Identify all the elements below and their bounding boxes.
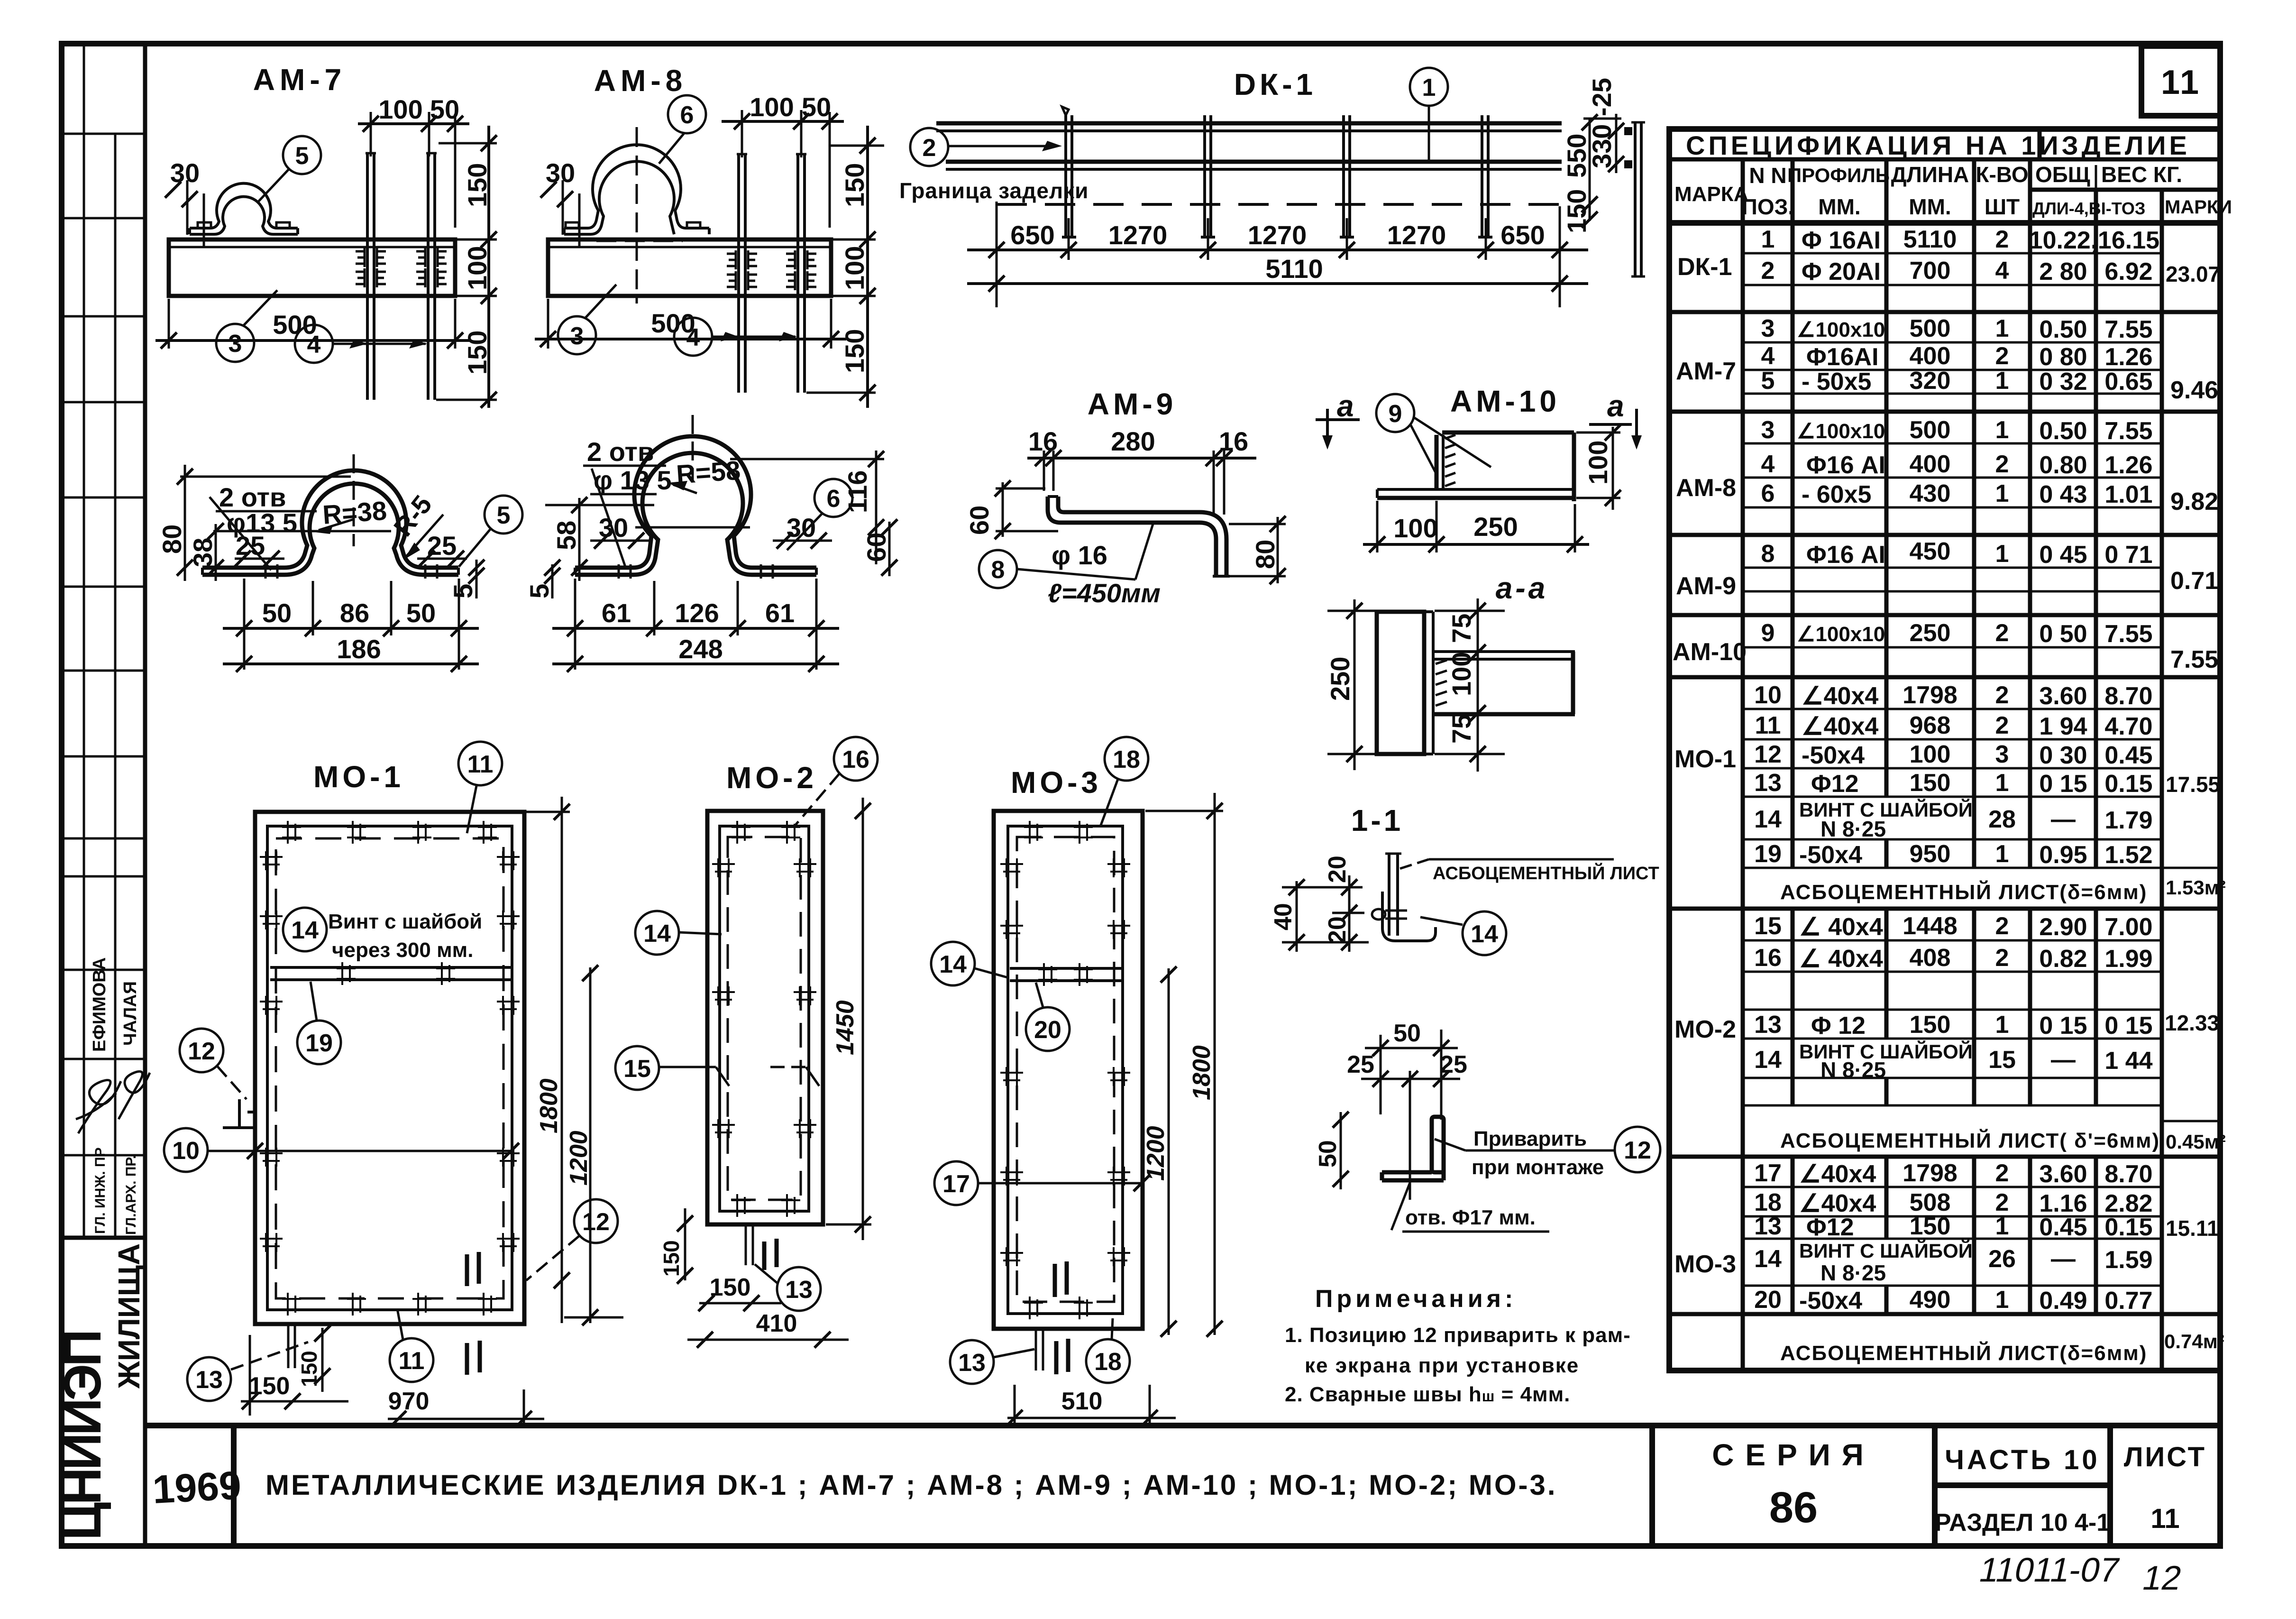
svg-text:АСБОЦЕМЕНТНЫЙ ЛИСТ(δ=6мм): АСБОЦЕМЕНТНЫЙ ЛИСТ(δ=6мм) (1780, 1341, 2147, 1365)
svg-text:13: 13 (195, 1366, 223, 1394)
anchor rod pos 4 (right) (427, 153, 430, 400)
svg-text:100: 100 (462, 246, 492, 290)
svg-text:5: 5 (295, 142, 309, 170)
svg-text:1798: 1798 (1903, 1159, 1958, 1187)
svg-text:14: 14 (643, 920, 671, 947)
svg-text:0 50: 0 50 (2039, 620, 2087, 648)
svg-text:через 300 мм.: через 300 мм. (332, 938, 473, 962)
svg-text:19: 19 (305, 1030, 333, 1057)
svg-text:ВЕС КГ.: ВЕС КГ. (2101, 162, 2182, 187)
horizontal bar (1435, 650, 1575, 653)
svg-text:1: 1 (1995, 480, 2009, 507)
svg-text:14: 14 (1754, 1046, 1782, 1074)
callout circle 4 with arrows to rods (674, 318, 712, 356)
page number box top right (2141, 46, 2220, 116)
svg-text:0.15: 0.15 (2104, 770, 2152, 798)
svg-text:ГЛ.АРХ. ПР.: ГЛ.АРХ. ПР. (123, 1155, 139, 1235)
omega profile pos 6 (575, 436, 816, 568)
inner frame (720, 826, 809, 1211)
svg-text:Φ12: Φ12 (1806, 1214, 1854, 1241)
dim 1450 right (862, 798, 864, 1240)
svg-text:3: 3 (229, 330, 242, 358)
svg-text:330: 330 (1587, 124, 1617, 168)
svg-text:50: 50 (1314, 1140, 1342, 1168)
svg-text:1-1: 1-1 (1351, 803, 1404, 837)
svg-text:10: 10 (172, 1137, 200, 1165)
svg-text:5: 5 (1761, 367, 1775, 395)
svg-text:2: 2 (1761, 257, 1775, 285)
post pos 2 c (1342, 115, 1345, 237)
svg-text:DК-1: DК-1 (1234, 67, 1317, 101)
svg-text:0 15: 0 15 (2039, 770, 2087, 798)
dashed inner (1017, 837, 1114, 1302)
sheet edge vertical (1388, 854, 1390, 936)
svg-text:0 30: 0 30 (2039, 742, 2087, 769)
svg-text:1 44: 1 44 (2104, 1047, 2152, 1075)
svg-text:1: 1 (1995, 1213, 2009, 1240)
svg-text:80: 80 (157, 524, 187, 554)
svg-text:80: 80 (1250, 540, 1280, 569)
svg-text:Приварить: Приварить (1473, 1127, 1587, 1150)
svg-text:14: 14 (291, 917, 319, 944)
rail pos 1 (lower, two lines) (946, 160, 1562, 164)
clamp pos 6 on plate (564, 145, 709, 228)
svg-text:20: 20 (1324, 916, 1351, 944)
svg-text:0 15: 0 15 (2039, 1012, 2087, 1039)
svg-text:5: 5 (448, 584, 478, 598)
svg-text:150: 150 (659, 1240, 684, 1277)
svg-text:20: 20 (1034, 1016, 1061, 1044)
callout circle 2 with leader (910, 128, 948, 166)
callout circle 19 (297, 1021, 341, 1064)
svg-text:3.60: 3.60 (2039, 1160, 2087, 1188)
svg-text:61: 61 (765, 598, 795, 628)
svg-text:3: 3 (1761, 315, 1775, 342)
section marks 11 (467, 1252, 479, 1286)
dim 410 (687, 1339, 849, 1341)
base angle horizontal (1377, 488, 1574, 491)
svg-text:116: 116 (842, 470, 872, 513)
svg-text:490: 490 (1910, 1286, 1951, 1314)
svg-text:1: 1 (1761, 226, 1775, 253)
svg-text:a-a: a-a (1496, 571, 1548, 605)
svg-text:4: 4 (1995, 257, 2009, 285)
callout circle 15 (615, 1046, 659, 1090)
svg-text:12: 12 (188, 1038, 215, 1065)
anchor rod pos 4 (right) (796, 154, 799, 393)
svg-text:a: a (1337, 389, 1354, 423)
dashed angle inner (276, 838, 503, 1298)
dim 510 (1007, 1417, 1176, 1419)
AM-8 rows (1743, 442, 2162, 445)
AM-10 rows (1743, 646, 2162, 649)
svg-text:1448: 1448 (1903, 912, 1958, 940)
svg-text:АСБОЦЕМЕНТНЫЙ ЛИСТ(δ=6мм): АСБОЦЕМЕНТНЫЙ ЛИСТ(δ=6мм) (1780, 880, 2147, 904)
svg-text:4: 4 (307, 331, 321, 359)
svg-text:1: 1 (1995, 769, 2009, 797)
svg-text:2: 2 (1995, 342, 2009, 370)
svg-text:a: a (1607, 389, 1624, 423)
screw marks (732, 821, 750, 844)
svg-text:650: 650 (1010, 220, 1054, 250)
inner frame (1008, 826, 1123, 1314)
callout circle 3 (558, 316, 596, 354)
svg-text:2: 2 (1995, 451, 2009, 478)
dim 60 left (1002, 482, 1004, 537)
svg-text:МО-1: МО-1 (313, 760, 404, 794)
AM-9 rows (1743, 567, 2162, 569)
svg-text:1800: 1800 (535, 1078, 563, 1133)
svg-text:1.79: 1.79 (2104, 807, 2152, 834)
svg-text:10.22,: 10.22, (2029, 227, 2098, 254)
weld marks on rods (356, 248, 386, 267)
omega profile pos 5 (202, 470, 458, 568)
callout circle 5 (485, 496, 522, 534)
svg-text:9: 9 (1761, 619, 1775, 647)
svg-text:13: 13 (1754, 769, 1782, 797)
svg-text:ЧАСТЬ 10: ЧАСТЬ 10 (1945, 1444, 2100, 1475)
screw marks bottom rail (282, 1293, 301, 1315)
header horizontals (1669, 157, 2220, 162)
svg-text:150: 150 (462, 163, 492, 207)
svg-text:1.26: 1.26 (2104, 451, 2152, 479)
svg-text:∠40x4: ∠40x4 (1802, 713, 1878, 740)
svg-text:0 15: 0 15 (2104, 1012, 2152, 1039)
svg-text:13: 13 (1754, 1011, 1782, 1039)
dim 80 right (1277, 517, 1279, 583)
dim 1200 right (589, 967, 592, 1323)
svg-text:10: 10 (1754, 681, 1782, 709)
svg-text:АМ-9: АМ-9 (1676, 572, 1736, 600)
svg-text:100: 100 (1910, 741, 1951, 768)
dim 100/50 top (370, 112, 372, 156)
svg-text:0.49: 0.49 (2039, 1287, 2087, 1315)
svg-text:7.55: 7.55 (2170, 646, 2218, 673)
svg-text:0 43: 0 43 (2039, 481, 2087, 508)
pos 13 stub (745, 1225, 747, 1265)
svg-text:100: 100 (1393, 513, 1437, 543)
vertical plate (1377, 612, 1424, 754)
outer frame (707, 811, 823, 1224)
svg-text:∠ 40x4: ∠ 40x4 (1799, 913, 1883, 941)
svg-text:φ 16: φ 16 (1052, 540, 1107, 570)
svg-text:650: 650 (1500, 220, 1545, 250)
callout circle 12 left with corner mark (180, 1029, 223, 1072)
svg-text:150: 150 (1562, 189, 1592, 233)
dim 150 horizontal (249, 1335, 251, 1416)
svg-text:0.45м²: 0.45м² (2166, 1131, 2226, 1153)
svg-text:40: 40 (1270, 903, 1297, 930)
hole marks feet (618, 564, 620, 579)
svg-text:∠100x10: ∠100x10 (1797, 623, 1885, 646)
weld hatch (1445, 435, 1455, 486)
svg-text:ЕФИМОВА: ЕФИМОВА (90, 957, 110, 1052)
svg-text:2.90: 2.90 (2039, 913, 2087, 941)
svg-text:408: 408 (1910, 944, 1951, 972)
svg-text:2: 2 (923, 134, 936, 162)
dim 248 (552, 662, 839, 665)
AM-7 rows (1743, 341, 2162, 344)
svg-text:2: 2 (1995, 619, 2009, 647)
svg-text:∠100x10: ∠100x10 (1797, 420, 1885, 443)
svg-text:100: 100 (840, 246, 869, 290)
svg-text:14: 14 (939, 951, 967, 978)
dim 100/50 top (741, 110, 743, 157)
weld hatch (1436, 660, 1447, 706)
crossbar pos 19 (270, 966, 511, 969)
callout circle 10 with long leader (164, 1128, 208, 1172)
svg-text:0 71: 0 71 (2104, 541, 2152, 569)
title block bottom (145, 1426, 2220, 1546)
section marks 11 (764, 1239, 777, 1270)
svg-text:12: 12 (1754, 741, 1782, 768)
svg-text:5: 5 (524, 584, 554, 598)
dim 150 vertical left (684, 1208, 686, 1280)
svg-text:0.80: 0.80 (2039, 451, 2087, 479)
svg-text:450: 450 (1910, 538, 1951, 565)
anchor rod pos 4 (left) (366, 153, 369, 400)
svg-text:126: 126 (675, 598, 719, 628)
signature squiggles (76, 1080, 121, 1134)
svg-text:23.07: 23.07 (2166, 262, 2220, 286)
svg-text:1: 1 (1995, 315, 2009, 342)
svg-text:-25: -25 (1587, 78, 1617, 116)
svg-text:Винт с шайбой: Винт с шайбой (328, 910, 482, 933)
svg-text:7.55: 7.55 (2104, 620, 2152, 648)
svg-text:60: 60 (964, 506, 994, 535)
svg-text:3: 3 (1995, 741, 2009, 768)
MO-2 rows (1743, 939, 2162, 942)
svg-text:2: 2 (1995, 912, 2009, 940)
svg-text:СПЕЦИФИКАЦИЯ НА 1ИЗДЕЛИЕ: СПЕЦИФИКАЦИЯ НА 1ИЗДЕЛИЕ (1686, 130, 2190, 160)
svg-text:—: — (2051, 1046, 2076, 1074)
svg-text:11: 11 (1755, 712, 1781, 739)
svg-text:Φ16 АІ: Φ16 АІ (1806, 541, 1885, 569)
dims 20/40/20 (1296, 881, 1298, 952)
svg-text:—: — (2051, 806, 2076, 833)
inner frame (267, 826, 512, 1310)
svg-text:250: 250 (1325, 657, 1355, 701)
svg-text:25: 25 (236, 531, 265, 561)
dim 50 left (1340, 1112, 1342, 1189)
svg-text:—: — (2051, 1245, 2076, 1273)
svg-text:6: 6 (1761, 480, 1775, 507)
svg-text:отв. Ф17 мм.: отв. Ф17 мм. (1405, 1206, 1536, 1229)
svg-text:4.70: 4.70 (2104, 713, 2152, 740)
bolt (1372, 909, 1385, 920)
svg-text:1: 1 (1995, 416, 2009, 444)
svg-text:4: 4 (686, 324, 700, 351)
svg-text:186: 186 (337, 634, 381, 664)
svg-text:2: 2 (1995, 712, 2009, 739)
svg-text:100: 100 (1583, 441, 1613, 485)
svg-text:∠40x4: ∠40x4 (1802, 682, 1878, 710)
svg-text:3: 3 (570, 322, 584, 350)
svg-text:9.82: 9.82 (2170, 488, 2218, 515)
centre line (353, 454, 355, 546)
dim 1800 right (561, 797, 563, 1323)
svg-text:1. Позицию 12 приварить к рам: 1. Позицию 12 приварить к рам- (1285, 1324, 1631, 1347)
svg-text:2: 2 (1995, 681, 2009, 709)
svg-text:12.33: 12.33 (2165, 1011, 2219, 1035)
rail pos 1 (upper, two lines) (936, 121, 1562, 126)
svg-text:18: 18 (1113, 746, 1140, 773)
table body text (1673, 226, 2226, 1365)
dim 1800 right (1214, 793, 1216, 1335)
svg-text:86: 86 (1769, 1483, 1818, 1532)
svg-text:1270: 1270 (1108, 220, 1168, 250)
svg-text:АМ-7: АМ-7 (253, 63, 346, 97)
callout circle 12 (1615, 1127, 1660, 1172)
svg-text:150: 150 (710, 1274, 751, 1301)
svg-text:0.65: 0.65 (2104, 368, 2152, 396)
outer frame (255, 812, 524, 1324)
svg-text:1.53м²: 1.53м² (2166, 876, 2226, 899)
svg-text:16.15: 16.15 (2098, 227, 2159, 254)
svg-text:100: 100 (750, 92, 794, 122)
svg-text:МАРКА: МАРКА (1674, 183, 1748, 206)
dim line 650/1270/1270/1270/650 (996, 202, 998, 307)
svg-text:0 45: 0 45 (2039, 541, 2087, 569)
svg-text:N 8·25: N 8·25 (1820, 1058, 1886, 1082)
angle pos 12 (1432, 1117, 1444, 1172)
svg-text:АМ-9: АМ-9 (1088, 387, 1177, 421)
svg-text:1800: 1800 (1188, 1045, 1216, 1100)
svg-text:2: 2 (1995, 1159, 2009, 1187)
callout circle 20 (1026, 1007, 1070, 1051)
svg-text:250: 250 (1910, 619, 1951, 647)
dim 500 bottom (168, 299, 170, 349)
svg-text:∠ 40x4: ∠ 40x4 (1799, 945, 1883, 973)
DK-1 rows (1743, 252, 2162, 255)
dim 116 right (875, 451, 878, 564)
svg-text:400: 400 (1910, 342, 1951, 370)
svg-text:2: 2 (1995, 226, 2009, 253)
svg-text:12: 12 (582, 1208, 610, 1236)
svg-text:∠100x10: ∠100x10 (1797, 318, 1885, 341)
svg-text:DК-1: DК-1 (1677, 253, 1732, 281)
hole marks right foot (424, 564, 427, 579)
svg-text:8.70: 8.70 (2104, 682, 2152, 710)
svg-text:968: 968 (1910, 712, 1951, 739)
svg-text:0.45: 0.45 (2104, 742, 2152, 769)
svg-text:61: 61 (602, 598, 631, 628)
dim 970 (388, 1418, 544, 1420)
svg-text:28: 28 (1988, 806, 2016, 833)
svg-text:7.00: 7.00 (2104, 913, 2152, 941)
svg-text:8.70: 8.70 (2104, 1160, 2152, 1188)
svg-text:2 отв: 2 отв (587, 437, 654, 467)
svg-text:1 94: 1 94 (2039, 713, 2087, 740)
clamp centre lines (636, 127, 638, 304)
svg-text:ОБЩ: ОБЩ (2035, 162, 2090, 187)
svg-text:60: 60 (861, 533, 891, 562)
dims 75/100/75 right (1477, 598, 1479, 772)
svg-text:0.74м²: 0.74м² (2164, 1330, 2224, 1352)
callout circle 14 (1463, 911, 1506, 955)
svg-text:50: 50 (1393, 1020, 1421, 1047)
svg-text:6: 6 (827, 485, 841, 513)
svg-text:320: 320 (1910, 367, 1951, 395)
svg-text:9.46: 9.46 (2170, 377, 2218, 404)
svg-text:14: 14 (1754, 806, 1782, 833)
svg-text:ЧАЛАЯ: ЧАЛАЯ (120, 981, 140, 1046)
svg-text:50: 50 (262, 598, 292, 628)
svg-text:-50x4: -50x4 (1799, 841, 1862, 869)
end section bar right (1634, 122, 1637, 276)
outer frame (994, 811, 1143, 1329)
svg-text:- 60x5: - 60x5 (1802, 481, 1871, 508)
svg-text:400: 400 (1910, 451, 1951, 478)
svg-text:5110: 5110 (1903, 226, 1957, 253)
svg-text:1: 1 (1995, 540, 2009, 568)
svg-text:150: 150 (297, 1351, 321, 1387)
svg-text:11: 11 (2161, 64, 2201, 101)
svg-text:ЛИСТ: ЛИСТ (2124, 1442, 2206, 1472)
svg-text:500: 500 (1910, 315, 1951, 342)
svg-text:-50x4: -50x4 (1799, 1287, 1862, 1315)
svg-text:АМ-10: АМ-10 (1673, 638, 1747, 666)
callout circle 14 (635, 911, 679, 955)
svg-text:ШТ: ШТ (1985, 194, 2020, 219)
bracket: vertical flange pos 9 (1435, 435, 1439, 489)
svg-text:при монтаже: при монтаже (1472, 1156, 1604, 1179)
svg-text:1: 1 (1995, 1286, 2009, 1314)
callout circle 6 (668, 95, 706, 133)
svg-text:0.77: 0.77 (2104, 1287, 2152, 1315)
verticals (1741, 159, 1745, 1371)
svg-text:1270: 1270 (1387, 220, 1446, 250)
svg-text:9: 9 (1389, 400, 1402, 428)
post pos 2 d (1481, 115, 1483, 237)
svg-text:ММ.: ММ. (1818, 194, 1860, 219)
svg-text:19: 19 (1754, 840, 1782, 868)
svg-text:30: 30 (170, 158, 200, 188)
screw marks (1024, 821, 1043, 844)
callout circle 4 with arrows to rods (295, 325, 333, 363)
svg-text:2: 2 (1995, 944, 2009, 972)
svg-text:1: 1 (1422, 74, 1436, 101)
callout circle 8 with labels (979, 550, 1017, 588)
svg-text:ℓ=450мм: ℓ=450мм (1048, 578, 1161, 608)
svg-text:7.55: 7.55 (2104, 417, 2152, 445)
svg-text:8: 8 (991, 556, 1005, 584)
callout circle 1 (1410, 68, 1448, 106)
svg-text:8: 8 (1761, 540, 1775, 568)
svg-text:248: 248 (678, 634, 723, 664)
svg-text:430: 430 (1910, 480, 1951, 507)
svg-text:5110: 5110 (1265, 254, 1323, 284)
svg-text:Φ16АІ: Φ16АІ (1806, 343, 1879, 371)
svg-text:150: 150 (249, 1372, 290, 1400)
svg-text:1798: 1798 (1903, 681, 1958, 709)
svg-text:38: 38 (188, 538, 218, 567)
screw marks right stile (497, 851, 520, 870)
svg-text:6.92: 6.92 (2104, 258, 2152, 285)
svg-text:150: 150 (1910, 769, 1951, 797)
svg-text:1270: 1270 (1248, 220, 1307, 250)
dim 100 right (1612, 427, 1614, 510)
svg-text:Φ 20АІ: Φ 20АІ (1802, 258, 1881, 285)
callout circle 18 top (1105, 737, 1148, 781)
dim 58 left (578, 498, 581, 581)
svg-text:ДЛИ-4,ВІ-ТОЗ: ДЛИ-4,ВІ-ТОЗ (2032, 199, 2145, 218)
svg-text:14: 14 (1754, 1245, 1782, 1273)
svg-text:13: 13 (785, 1276, 813, 1304)
svg-text:950: 950 (1910, 840, 1951, 868)
svg-text:Φ16 АІ: Φ16 АІ (1806, 451, 1885, 479)
right dim stack -25/330/550/150 (1589, 119, 1591, 221)
